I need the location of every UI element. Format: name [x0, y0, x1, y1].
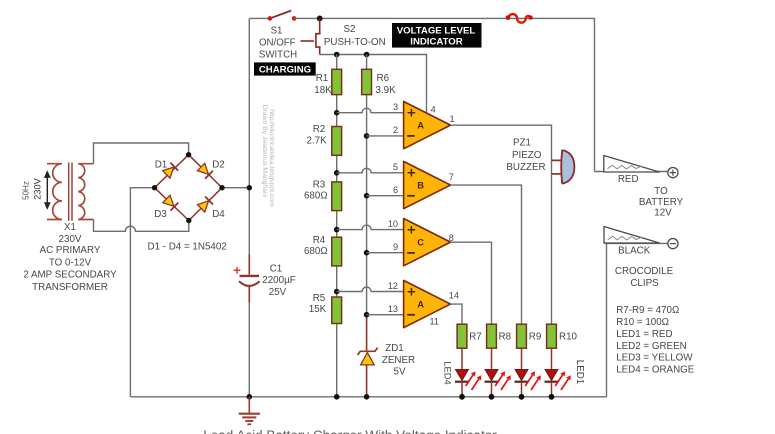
- svg-text:CLIPS: CLIPS: [630, 278, 659, 289]
- node junction R1 top: [334, 52, 340, 58]
- svg-text:PUSH-TO-ON: PUSH-TO-ON: [324, 37, 386, 48]
- svg-text:S1: S1: [271, 25, 283, 36]
- LED LED3 (under R8): [485, 348, 511, 397]
- wire output B pin7 to R9 column: [451, 185, 522, 324]
- svg-text:2 AMP SECONDARY: 2 AMP SECONDARY: [23, 270, 117, 281]
- node junctions on divider chain: [334, 110, 340, 400]
- svg-text:A: A: [417, 300, 424, 310]
- crocodile clip BLACK: [604, 227, 660, 244]
- svg-text:D2: D2: [212, 159, 225, 170]
- pointer dash from ON/OFF label to S2: [301, 40, 315, 42]
- node junctions on reference column: [364, 133, 370, 400]
- resistor R8: [487, 324, 497, 348]
- svg-text:6: 6: [393, 185, 398, 195]
- svg-text:5V: 5V: [394, 367, 406, 378]
- wire pin2 from ref column: [367, 135, 404, 137]
- svg-text:B: B: [417, 181, 424, 191]
- op-amp U1D (comparator A bottom): [404, 280, 451, 327]
- svg-text:50Hz: 50Hz: [22, 181, 31, 200]
- label X1 transformer text block: [23, 222, 117, 293]
- node junctions LED columns on bottom rail: [459, 394, 554, 400]
- node junction R6 top: [364, 52, 370, 58]
- svg-text:R2: R2: [313, 124, 326, 135]
- svg-text:TO: TO: [654, 186, 668, 197]
- C1 plus sign: [234, 267, 241, 274]
- diode D1: [162, 163, 178, 179]
- svg-text:LED4 = ORANGE: LED4 = ORANGE: [616, 365, 695, 376]
- svg-text:C1: C1: [270, 263, 283, 274]
- wire output C pin8 to R8 column: [451, 242, 492, 324]
- crocodile clip RED: [604, 156, 660, 173]
- node junction C1 on bottom rail: [247, 394, 253, 400]
- transformer X1 primary winding: [47, 164, 62, 220]
- resistor R9: [517, 324, 527, 348]
- resistor R5: [332, 297, 342, 324]
- label C1 value: [262, 263, 295, 298]
- svg-text:230V: 230V: [33, 177, 43, 199]
- svg-text:14: 14: [449, 290, 459, 300]
- wire top rail right segment to battery corner: [294, 18, 594, 171]
- svg-text:ON/OFF: ON/OFF: [259, 37, 296, 48]
- fuse / link squiggle on top rail: [506, 14, 533, 23]
- node junction S2 branch on top rail: [317, 16, 323, 22]
- bridge node dots: [152, 152, 225, 223]
- zener diode ZD1: [358, 316, 378, 397]
- svg-text:R3: R3: [313, 180, 326, 191]
- svg-text:R10: R10: [559, 331, 578, 342]
- svg-text:CHARGING: CHARGING: [259, 64, 311, 75]
- wire pin5 from chain (hop): [337, 168, 404, 173]
- svg-text:X1: X1: [64, 222, 76, 233]
- piezo buzzer PZ1 stubs: [552, 160, 562, 174]
- svg-text:ZENER: ZENER: [382, 355, 415, 366]
- transformer X1 core: [69, 163, 72, 221]
- svg-text:680Ω: 680Ω: [304, 246, 328, 257]
- svg-text:TO 0-12V: TO 0-12V: [49, 257, 92, 268]
- battery plus terminal symbol: [668, 168, 678, 178]
- svg-text:11: 11: [430, 317, 439, 327]
- svg-text:CROCODILE: CROCODILE: [615, 266, 674, 277]
- svg-text:PIEZO: PIEZO: [512, 150, 542, 161]
- svg-text:R5: R5: [313, 293, 326, 304]
- svg-text:R9: R9: [529, 331, 542, 342]
- svg-text:A: A: [417, 121, 424, 131]
- diode D4: [197, 197, 213, 213]
- wire secondary bottom to bridge bottom node (hop over x=130.4): [94, 220, 189, 232]
- svg-text:680Ω: 680Ω: [304, 191, 328, 202]
- svg-text:VOLTAGE LEVEL: VOLTAGE LEVEL: [397, 25, 476, 36]
- wire battery positive from corner to plus terminal: [595, 171, 669, 173]
- label PZ1 PIEZO BUZZER: [506, 137, 545, 173]
- wire bridge right node to positive rail: [222, 187, 249, 189]
- svg-text:TRANSFORMER: TRANSFORMER: [32, 282, 108, 293]
- svg-text:BATTERY: BATTERY: [639, 197, 684, 208]
- wire V+ bus y=54.5 from S2 to op-amp pin 4: [320, 55, 427, 114]
- op-amp U1B (comparator B): [404, 161, 451, 208]
- svg-text:18K: 18K: [314, 85, 332, 96]
- svg-text:12V: 12V: [654, 207, 672, 218]
- wire output A pin1 to R10 column: [451, 125, 552, 324]
- wire reference column x=366.6 (R6/ZD1): [366, 55, 368, 319]
- svg-text:AC PRIMARY: AC PRIMARY: [40, 245, 101, 256]
- svg-text:LED1: LED1: [574, 360, 585, 385]
- svg-text:LED4: LED4: [443, 361, 453, 384]
- wire pin12 from chain (hop): [337, 287, 404, 292]
- svg-text:15K: 15K: [309, 304, 327, 315]
- wire secondary top to bridge top node: [94, 143, 189, 164]
- svg-text:INDICATOR: INDICATOR: [410, 36, 462, 47]
- svg-text:Lead Acid Battery Charger With: Lead Acid Battery Charger With Voltage I…: [203, 428, 497, 434]
- svg-text:9: 9: [393, 242, 398, 252]
- 230V mains double arrow: [44, 170, 51, 210]
- wire bridge left node to bottom-left rail drop: [130, 188, 154, 397]
- LED LED1 (under R10): [545, 348, 571, 397]
- notes block R7-R9 LED colors: [616, 305, 695, 375]
- black box CHARGING: [254, 62, 316, 75]
- wire negative riser down to bottom rail: [606, 243, 608, 396]
- svg-text:2.7K: 2.7K: [307, 135, 328, 146]
- resistor R3: [332, 182, 342, 211]
- svg-text:http:∕∕electricalidea.blogspot: http:∕∕electricalidea.blogspot.com: [268, 109, 275, 207]
- svg-text:4: 4: [431, 105, 436, 115]
- capacitor C1: [239, 255, 260, 303]
- op-amp U1C (comparator C): [404, 219, 451, 266]
- black box VOLTAGE LEVEL INDICATOR: [392, 23, 482, 48]
- svg-text:R8: R8: [499, 331, 512, 342]
- wire pin9 from ref column: [367, 252, 404, 254]
- label TO BATTERY 12V: [639, 186, 684, 218]
- svg-text:C: C: [417, 238, 424, 248]
- svg-text:3.9K: 3.9K: [376, 85, 397, 96]
- resistor R6: [362, 69, 372, 94]
- svg-text:2200µF: 2200µF: [262, 275, 295, 286]
- label ZD1 ZENER 5V: [382, 343, 415, 378]
- resistor R7: [457, 324, 467, 348]
- svg-text:12: 12: [388, 281, 398, 291]
- svg-text:7: 7: [449, 172, 454, 182]
- svg-text:D4: D4: [212, 209, 225, 220]
- transformer X1 secondary winding: [78, 164, 93, 220]
- svg-text:ZD1: ZD1: [385, 343, 404, 354]
- svg-text:3: 3: [393, 102, 398, 112]
- wire top rail left segment: [249, 17, 270, 19]
- switch S1 lever and contacts: [268, 11, 297, 21]
- battery minus terminal symbol: [668, 239, 678, 249]
- svg-text:R7-R9 = 470Ω: R7-R9 = 470Ω: [616, 305, 679, 316]
- bridge diamond wires: [155, 155, 222, 221]
- resistor R1: [332, 69, 342, 94]
- wire pin6 from ref column: [367, 195, 404, 197]
- resistor R4: [332, 237, 342, 266]
- pin labels 3,2,5,6,10,9,12,13: [388, 102, 398, 314]
- svg-text:Drawn By Jeedarius Manghani: Drawn By Jeedarius Manghani: [261, 105, 268, 198]
- label CROCODILE CLIPS: [615, 266, 674, 289]
- svg-text:LED1 = RED: LED1 = RED: [616, 329, 672, 340]
- svg-text:25V: 25V: [269, 287, 287, 298]
- svg-text:PZ1: PZ1: [513, 137, 531, 148]
- resistor R2: [332, 127, 342, 156]
- wire pin13 from ref column: [367, 314, 404, 316]
- svg-text:R1: R1: [316, 73, 329, 84]
- LED LED4 (under R7): [455, 348, 481, 397]
- svg-text:1: 1: [450, 114, 455, 124]
- piezo buzzer PZ1 body: [561, 150, 574, 183]
- label S1 ON/OFF SWITCH: [259, 25, 297, 60]
- svg-text:R10 = 100Ω: R10 = 100Ω: [616, 317, 669, 328]
- wire pin3 from chain (hop over ref column): [337, 108, 404, 113]
- svg-text:230V: 230V: [59, 234, 82, 245]
- op-amp U1A (comparator A top): [404, 102, 451, 149]
- wire divider chain x=336.7: [336, 55, 338, 397]
- svg-text:BUZZER: BUZZER: [506, 162, 545, 173]
- diode D2: [197, 163, 213, 179]
- svg-text:RED: RED: [618, 174, 639, 185]
- wire positive left rail x=249.3: [248, 18, 250, 396]
- LED LED2 (under R9): [515, 348, 541, 397]
- node junction bridge out on rail: [247, 185, 252, 190]
- svg-text:5: 5: [393, 162, 398, 172]
- wire output D pin14 to R7 column: [451, 304, 463, 324]
- wire bottom ground rail: [130, 396, 606, 398]
- svg-text:LED3 = YELLOW: LED3 = YELLOW: [616, 353, 693, 364]
- wire pin10 from chain (hop): [337, 225, 404, 230]
- svg-text:8: 8: [449, 233, 454, 243]
- wire battery negative from clip to riser: [605, 242, 669, 244]
- svg-text:BLACK: BLACK: [618, 245, 651, 256]
- ground symbol: [239, 397, 260, 424]
- svg-text:S2: S2: [344, 24, 356, 35]
- diode D3: [162, 195, 178, 211]
- svg-text:R4: R4: [313, 235, 326, 246]
- svg-text:2: 2: [393, 125, 398, 135]
- svg-text:R7: R7: [469, 331, 482, 342]
- svg-text:D3: D3: [154, 209, 167, 220]
- svg-text:R6: R6: [377, 73, 390, 84]
- svg-text:D1: D1: [155, 159, 168, 170]
- svg-text:SWITCH: SWITCH: [259, 49, 297, 60]
- switch S2 push-to-on: [316, 19, 321, 55]
- svg-text:10: 10: [388, 219, 398, 229]
- svg-text:LED2 = GREEN: LED2 = GREEN: [616, 341, 687, 352]
- svg-text:D1 - D4 = 1N5402: D1 - D4 = 1N5402: [148, 241, 227, 252]
- svg-text:13: 13: [388, 304, 398, 314]
- resistor R10: [547, 324, 557, 348]
